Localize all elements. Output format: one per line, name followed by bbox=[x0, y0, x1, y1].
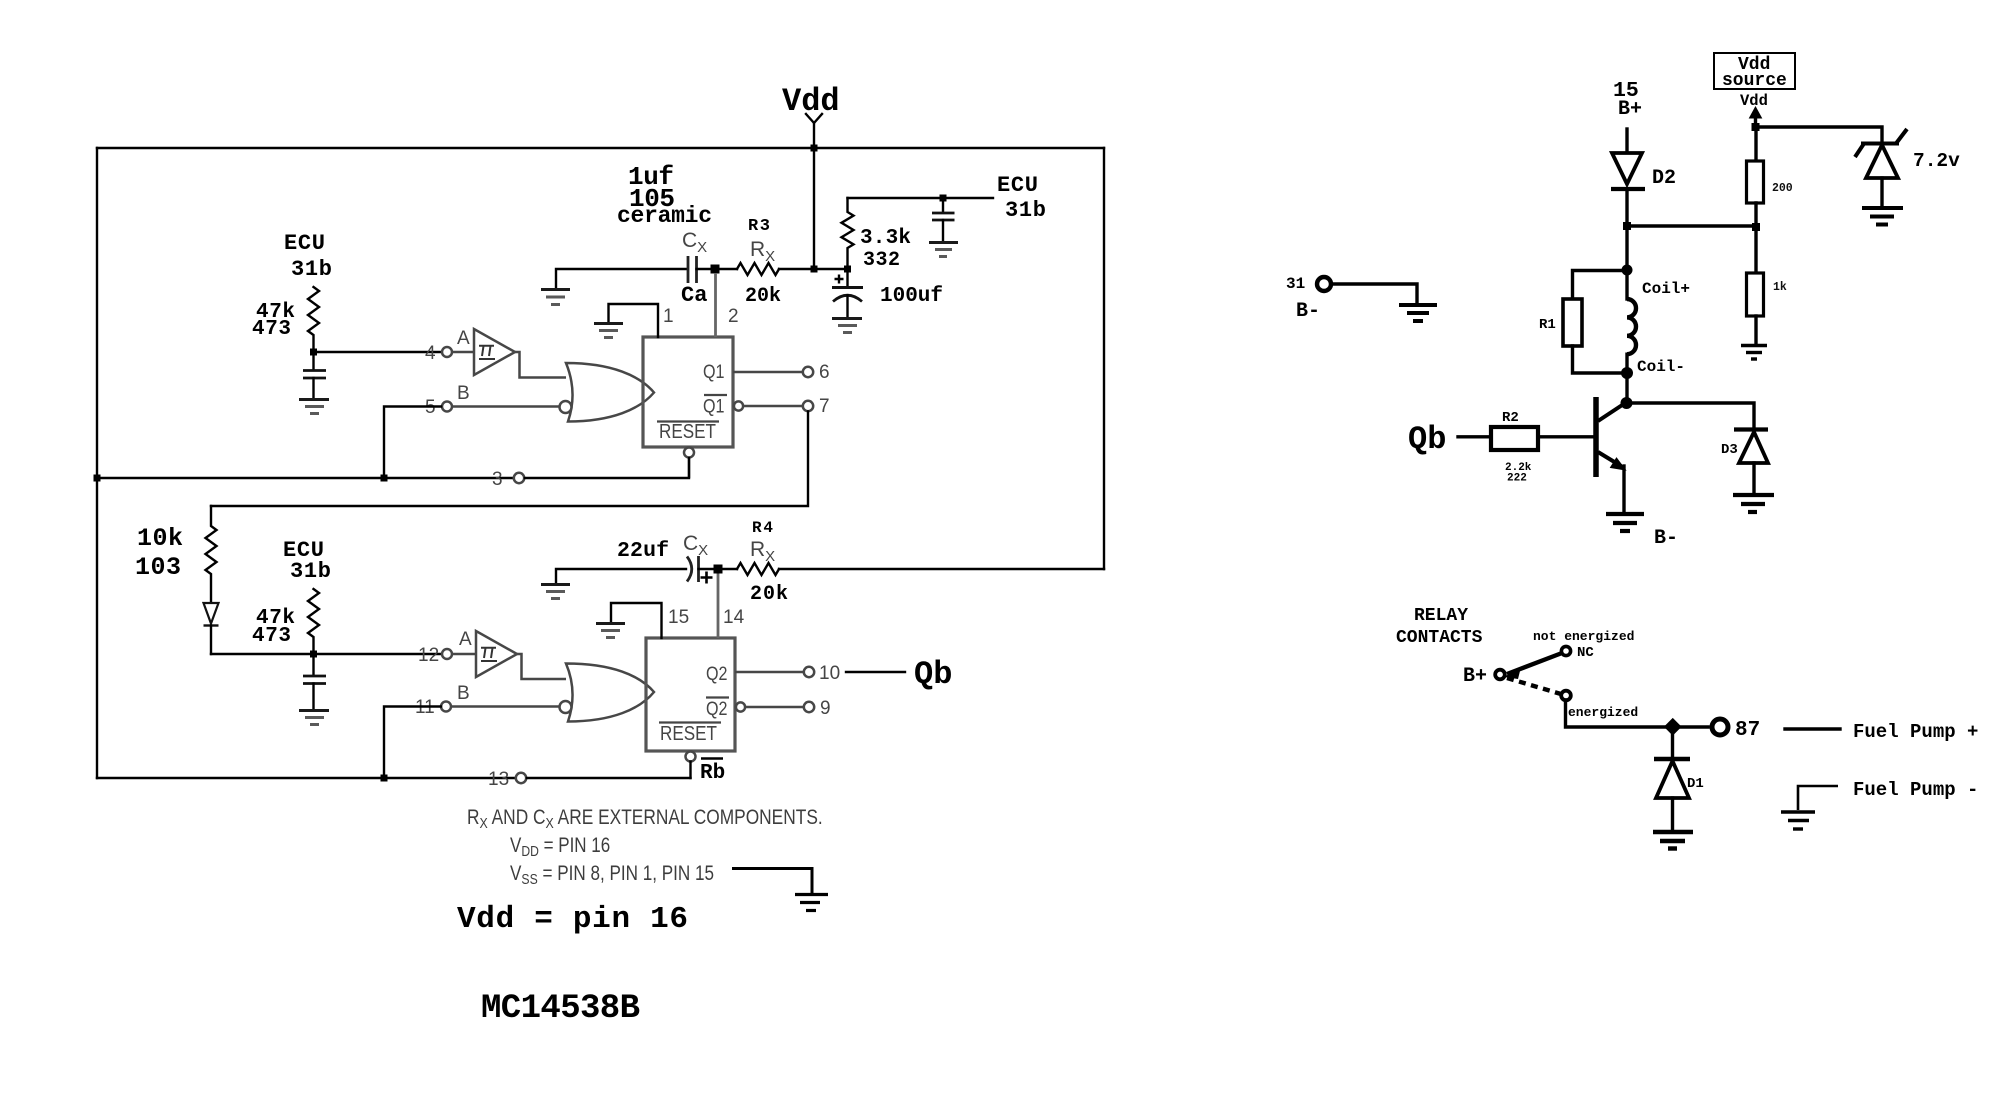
svg-text:R1: R1 bbox=[1539, 317, 1556, 333]
svg-text:103: 103 bbox=[135, 553, 181, 582]
resistor 1k bbox=[1747, 273, 1787, 344]
svg-text:13: 13 bbox=[488, 769, 509, 790]
svg-text:22uf: 22uf bbox=[617, 539, 669, 563]
reset bubble U1a bbox=[684, 448, 694, 479]
ground emitter bbox=[1606, 514, 1644, 531]
svg-text:6: 6 bbox=[819, 362, 830, 383]
wire Qb to R2 bbox=[1458, 435, 1490, 438]
resistor R1 bbox=[1539, 271, 1627, 374]
resistor R4 Rx 20k bbox=[737, 519, 788, 606]
svg-text:RELAY: RELAY bbox=[1414, 606, 1468, 626]
node Coil+ junction bbox=[1622, 265, 1633, 276]
node Vdd source junction bbox=[1752, 123, 1760, 131]
svg-text:Q1: Q1 bbox=[703, 397, 725, 418]
relay arm solid to NC bbox=[1504, 653, 1562, 679]
flip-flop U1a box bbox=[643, 337, 733, 447]
svg-text:A: A bbox=[459, 629, 472, 650]
svg-text:31b: 31b bbox=[1005, 198, 1046, 223]
wire Vss to ground bbox=[732, 869, 812, 894]
node Ca output junction bbox=[711, 265, 720, 274]
pin 5 terminal bbox=[425, 383, 559, 418]
node Coil- junction bbox=[1621, 367, 1633, 379]
wire Fuel Pump - ground bbox=[1798, 786, 1838, 810]
capacitor 100uf polarized bbox=[832, 269, 943, 317]
svg-text:3: 3 bbox=[492, 469, 503, 490]
capacitor 22uf Cx polarized bbox=[617, 532, 713, 584]
power arrow Vdd source bbox=[1750, 107, 1762, 127]
svg-text:222: 222 bbox=[1507, 473, 1527, 485]
pin 9 output Q2bar bbox=[736, 698, 831, 719]
svg-text:15: 15 bbox=[668, 607, 689, 628]
wire D2 node down to coil bbox=[1625, 226, 1628, 270]
wire pin3 rail bbox=[97, 458, 689, 490]
wire R3 node to 3.3k node bbox=[817, 268, 848, 270]
svg-text:Fuel Pump +: Fuel Pump + bbox=[1853, 721, 1978, 743]
svg-text:CONTACTS: CONTACTS bbox=[1396, 628, 1483, 648]
wire node to pin 4 bbox=[314, 351, 442, 353]
power symbol Vdd bbox=[782, 83, 840, 148]
svg-text:Ca: Ca bbox=[681, 283, 707, 308]
ground pin4 cap bbox=[299, 400, 329, 414]
pin 15 wire and ground bbox=[596, 603, 689, 638]
svg-text:B+: B+ bbox=[1618, 98, 1642, 121]
svg-text:3.3k: 3.3k bbox=[860, 227, 911, 250]
svg-text:energized: energized bbox=[1568, 705, 1638, 720]
resistor 47k 473 lower with ECU 31b bbox=[252, 538, 331, 654]
svg-text:332: 332 bbox=[863, 249, 900, 272]
ground 22uf left bbox=[541, 585, 570, 599]
ground pin12 cap bbox=[299, 711, 329, 725]
ground D3 bbox=[1733, 495, 1774, 512]
pin 2 wire bbox=[716, 273, 739, 337]
node D2 junction bbox=[1623, 222, 1631, 230]
resistor 47k 473 upper with ECU 31b bbox=[252, 231, 332, 352]
svg-text:R3: R3 bbox=[748, 217, 770, 236]
svg-text:ceramic: ceramic bbox=[617, 203, 712, 229]
wire left rail bbox=[96, 148, 98, 778]
wire 22uf to R4 bbox=[699, 568, 738, 570]
OR gate U1b bbox=[560, 664, 655, 722]
svg-text:R4: R4 bbox=[752, 519, 773, 537]
ground 1k bbox=[1741, 346, 1767, 360]
capacitor Ca Cx 1uf ceramic bbox=[617, 162, 712, 308]
svg-text:12: 12 bbox=[418, 645, 439, 666]
svg-text:31b: 31b bbox=[290, 559, 331, 584]
terminal 31 B- bbox=[1286, 275, 1417, 323]
svg-text:Rb: Rb bbox=[700, 762, 725, 785]
pin 1 wire and ground bbox=[594, 304, 674, 338]
pin 10 output Q2 and Qb bbox=[735, 656, 952, 693]
svg-text:Vdd: Vdd bbox=[782, 83, 840, 120]
wire Vdd top rail bbox=[97, 147, 1104, 149]
svg-text:Qb: Qb bbox=[1408, 421, 1446, 458]
svg-text:A: A bbox=[457, 328, 470, 349]
resistor 200 bbox=[1747, 127, 1793, 273]
OR gate U1a bbox=[560, 363, 655, 422]
relay coil inductor bbox=[1627, 270, 1690, 376]
node pin5 branch junction bbox=[381, 475, 388, 482]
svg-text:31b: 31b bbox=[291, 257, 332, 282]
resistor 10k 103 bbox=[135, 506, 217, 603]
pin 11 terminal bbox=[415, 683, 559, 718]
svg-text:R2: R2 bbox=[1502, 410, 1519, 426]
flip-flop U1b box bbox=[646, 638, 735, 751]
svg-text:B-: B- bbox=[1296, 300, 1320, 323]
reset bubble U1b and Rb bbox=[686, 752, 726, 786]
svg-text:ECU: ECU bbox=[997, 173, 1038, 198]
capacitor ECU decoupling bbox=[932, 198, 955, 241]
diode D3 bbox=[1721, 430, 1768, 494]
svg-text:7: 7 bbox=[819, 396, 830, 417]
ground zener bbox=[1862, 208, 1903, 225]
svg-text:VSS = PIN 8, PIN 1, PIN 15: VSS = PIN 8, PIN 1, PIN 15 bbox=[510, 862, 714, 887]
wire energized to 87 bbox=[1566, 700, 1709, 727]
svg-text:B: B bbox=[457, 683, 470, 704]
contact NC bbox=[1561, 645, 1594, 661]
schmitt buffer A2 bbox=[476, 631, 517, 677]
svg-text:100uf: 100uf bbox=[880, 285, 943, 308]
ground Vss note bbox=[795, 895, 828, 911]
svg-text:473: 473 bbox=[252, 318, 291, 341]
pin 14 wire bbox=[718, 573, 745, 638]
diode D1 bbox=[1654, 733, 1704, 830]
pivot B+ contact bbox=[1495, 670, 1505, 680]
diode D2 bbox=[1611, 153, 1676, 226]
svg-text:Fuel Pump -: Fuel Pump - bbox=[1853, 779, 1978, 801]
svg-text:RX AND CX ARE EXTERNAL COMPONE: RX AND CX ARE EXTERNAL COMPONENTS. bbox=[467, 807, 823, 832]
ground ECU cap bbox=[929, 243, 958, 257]
svg-text:473: 473 bbox=[252, 625, 291, 648]
svg-text:200: 200 bbox=[1772, 182, 1793, 195]
ground Fuel Pump - bbox=[1781, 812, 1815, 829]
wire to ECU 31b top right bbox=[848, 173, 1047, 223]
wire pin5 branch to pin3 rail bbox=[384, 407, 441, 479]
svg-text:10: 10 bbox=[819, 663, 840, 684]
ground 100uf bbox=[832, 319, 862, 333]
resistor R2 2.2k bbox=[1491, 410, 1595, 485]
node pin11 branch junction bbox=[381, 775, 388, 782]
ground Ca left bbox=[541, 290, 570, 305]
wire Ca to R3 bbox=[697, 268, 738, 270]
svg-text:Q2: Q2 bbox=[706, 699, 728, 720]
svg-text:B+: B+ bbox=[1463, 665, 1487, 688]
resistor 3.3k 332 bbox=[842, 198, 912, 272]
svg-text:1: 1 bbox=[663, 306, 674, 327]
node Vdd rail junction bbox=[811, 145, 818, 152]
svg-text:MC14538B: MC14538B bbox=[481, 990, 640, 1028]
node pin4 junction bbox=[310, 349, 317, 356]
svg-text:Vdd = pin 16: Vdd = pin 16 bbox=[457, 902, 688, 937]
svg-text:1k: 1k bbox=[1773, 281, 1787, 294]
svg-text:ECU: ECU bbox=[284, 231, 325, 256]
capacitor at pin12 node bbox=[303, 654, 326, 709]
wire buffer A1 to OR1 bbox=[515, 352, 566, 378]
wire collector node to D3 bbox=[1627, 403, 1755, 427]
wire D2 to divider bbox=[1627, 224, 1756, 227]
svg-text:RESET: RESET bbox=[660, 723, 717, 745]
pin 12 terminal bbox=[418, 629, 476, 666]
relay arm dashed energized bbox=[1507, 678, 1561, 694]
svg-text:7.2v: 7.2v bbox=[1913, 150, 1960, 172]
pin 4 terminal bbox=[425, 328, 474, 364]
svg-text:Coil-: Coil- bbox=[1637, 358, 1685, 376]
svg-text:B-: B- bbox=[1654, 527, 1678, 550]
svg-text:NC: NC bbox=[1577, 645, 1594, 661]
wire 22uf left to ground bbox=[556, 569, 686, 583]
wire Fuel Pump + bbox=[1785, 727, 1840, 730]
svg-text:source: source bbox=[1722, 71, 1787, 91]
wire Vdd drop to R3 node bbox=[813, 148, 815, 269]
node 22uf output junction bbox=[714, 565, 723, 574]
wire coil to collector node bbox=[1625, 373, 1628, 403]
svg-text:Q2: Q2 bbox=[706, 664, 728, 685]
svg-text:4: 4 bbox=[425, 343, 436, 364]
capacitor at pin4 node bbox=[303, 352, 326, 398]
schmitt buffer A1 bbox=[474, 329, 515, 375]
svg-text:20k: 20k bbox=[750, 583, 788, 606]
svg-text:9: 9 bbox=[820, 698, 831, 719]
node 3.3k bottom junction bbox=[844, 266, 851, 273]
wire pin11 branch to pin13 rail bbox=[384, 707, 441, 779]
zener diode 7.2v bbox=[1855, 129, 1960, 206]
svg-text:Q1: Q1 bbox=[703, 362, 725, 383]
svg-text:Qb: Qb bbox=[914, 656, 952, 693]
transistor Q1 NPN bbox=[1596, 397, 1626, 512]
svg-text:B: B bbox=[457, 383, 470, 404]
wire right rail bbox=[1103, 148, 1105, 569]
wire pin13 rail bbox=[97, 769, 691, 790]
node collector junction bbox=[1621, 397, 1633, 409]
pin 6 output Q1 bbox=[733, 362, 830, 383]
node pin12 junction bbox=[310, 651, 317, 658]
svg-text:20k: 20k bbox=[745, 285, 781, 308]
svg-text:not energized: not energized bbox=[1533, 629, 1634, 644]
wire pin7 down to 10k bbox=[211, 412, 808, 507]
node divider junction bbox=[1752, 223, 1760, 231]
node left rail pin3 junction bbox=[94, 475, 101, 482]
svg-text:Coil+: Coil+ bbox=[1642, 280, 1690, 298]
diode below 10k bbox=[204, 603, 219, 654]
svg-text:31: 31 bbox=[1286, 275, 1305, 293]
pin 7 output Q1bar bbox=[734, 396, 830, 417]
svg-text:RESET: RESET bbox=[659, 421, 716, 443]
node D1 junction bbox=[1664, 718, 1682, 736]
svg-text:2: 2 bbox=[728, 306, 739, 327]
wire buffer A2 to OR2 bbox=[517, 654, 566, 679]
terminal 15 B+ bbox=[1613, 79, 1642, 153]
node R3 right junction bbox=[811, 266, 818, 273]
ground D1 bbox=[1653, 832, 1693, 849]
svg-text:Vdd: Vdd bbox=[1740, 92, 1768, 110]
svg-text:87: 87 bbox=[1735, 719, 1760, 742]
label RELAY CONTACTS bbox=[1396, 606, 1483, 648]
svg-text:D3: D3 bbox=[1721, 442, 1738, 458]
wire diode to pin 12 bbox=[211, 653, 441, 655]
terminal 87 bbox=[1712, 719, 1760, 742]
label Vdd source box bbox=[1714, 53, 1795, 110]
svg-text:10k: 10k bbox=[137, 524, 183, 553]
wire R4 to right rail bbox=[779, 568, 1104, 570]
svg-text:14: 14 bbox=[723, 607, 745, 628]
wire Vdd node to zener bbox=[1756, 127, 1882, 141]
svg-text:D1: D1 bbox=[1687, 776, 1704, 792]
node ECU cap junction bbox=[940, 195, 947, 202]
svg-text:D2: D2 bbox=[1652, 167, 1676, 190]
contact energized bbox=[1561, 691, 1638, 720]
wire Ca left to ground bbox=[556, 269, 687, 288]
ground 31 B- bbox=[1399, 305, 1437, 321]
resistor R3 Rx 20k bbox=[737, 217, 810, 308]
